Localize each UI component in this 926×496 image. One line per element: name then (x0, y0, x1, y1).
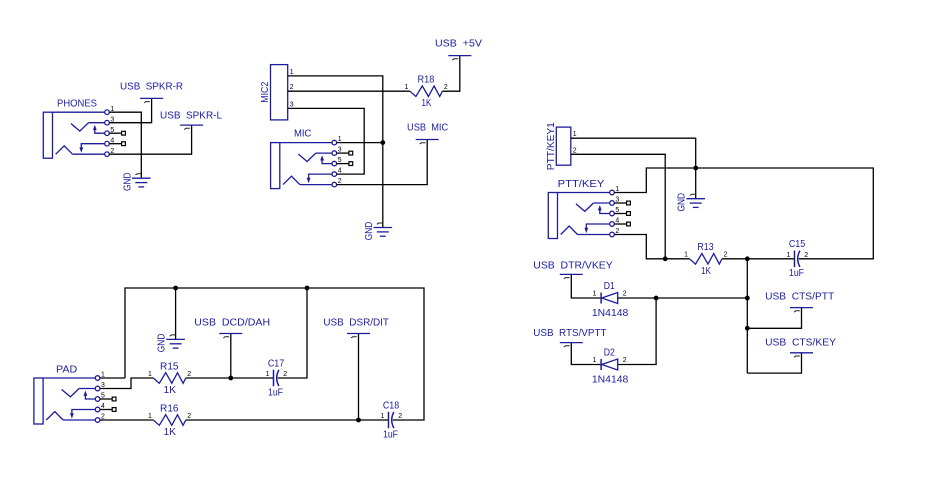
pin numbers C15 (787, 252, 809, 259)
svg-text:1: 1 (405, 84, 409, 91)
ground symbol PHONES (132, 174, 151, 187)
label R18 (417, 75, 434, 86)
wire MIC pin1 to node MICGND (337, 142, 383, 144)
wire node VKEY vertical (746, 259, 748, 373)
label D2 (604, 347, 615, 358)
svg-text:R18: R18 (417, 75, 434, 86)
wire PTT/KEY pin2 to R13 input (614, 235, 689, 259)
diode D2 (601, 359, 618, 370)
wire PAD ground stem (175, 288, 177, 339)
no-connect terminal PTT/KEY pin 5 (614, 212, 630, 216)
power port USB MIC symbol (416, 140, 439, 145)
net label USB +5V (435, 39, 482, 50)
value 1K of R18 (422, 98, 432, 109)
resistor R15 (153, 373, 186, 384)
pin numbers C18 (381, 413, 403, 420)
label PHONES (57, 99, 97, 110)
svg-text:C15: C15 (789, 239, 806, 250)
no-connect terminal PAD pin 5 (100, 397, 116, 401)
wire MIC2 pin3 to MIC pin4 (288, 108, 365, 174)
svg-text:GND: GND (677, 193, 688, 212)
label C17 (268, 358, 285, 369)
connector MIC2 body (271, 65, 288, 120)
label D1 (604, 281, 615, 292)
svg-text:1: 1 (684, 252, 688, 259)
resistor R16 (153, 415, 186, 426)
wire PAD pin2 to R16 (100, 419, 153, 421)
wire node DSR to C18 (359, 419, 389, 421)
label PTT/KEY1 (546, 122, 557, 170)
wire R15 to node DCD (186, 377, 231, 379)
pin numbers D1 (592, 291, 626, 298)
svg-text:2: 2 (283, 371, 287, 378)
capacitor C15 (795, 251, 800, 268)
resistor R13 (690, 254, 723, 265)
capacitor C17 (274, 370, 279, 387)
wire USB DCD/DAH to node DCD (230, 334, 232, 379)
label PTT/KEY (558, 179, 605, 190)
connector MIC2 pin numbers (290, 69, 294, 109)
jack PHONES body (43, 110, 109, 158)
wire R16 to node DSR (186, 419, 359, 421)
svg-text:USB +5V: USB +5V (435, 39, 482, 50)
label R15 (160, 361, 179, 372)
svg-text:C18: C18 (383, 400, 400, 411)
jack PAD pin numbers (101, 372, 105, 421)
svg-text:USB SPKR-R: USB SPKR-R (120, 82, 183, 93)
power port USB DCD/DAH symbol (219, 334, 242, 339)
label PAD (56, 365, 77, 376)
no-connect terminal PTT/KEY pin 3 (614, 201, 630, 205)
svg-text:R15: R15 (160, 361, 179, 372)
svg-text:USB RTS/VPTT: USB RTS/VPTT (533, 328, 607, 339)
value 1uF of C15 (789, 268, 804, 279)
pin numbers C17 (266, 371, 288, 378)
svg-text:1K: 1K (701, 266, 711, 277)
wire D1 to node DK (618, 297, 656, 299)
svg-text:PHONES: PHONES (57, 99, 97, 110)
label GND PAD (157, 334, 168, 353)
wire node MICGND to ground (382, 143, 384, 219)
label R13 (697, 242, 714, 253)
pin numbers R18 (405, 84, 448, 91)
net label USB CTS/KEY (765, 337, 836, 348)
wire PTTKEY ground stem (695, 168, 697, 199)
wire PHONES pin3 to USB SPKR-R (109, 98, 151, 122)
svg-text:1: 1 (787, 252, 791, 259)
svg-text:R13: R13 (697, 242, 714, 253)
value 1K of R16 (164, 427, 176, 438)
label GND PTTKEY (677, 193, 688, 212)
jack PTT/KEY body (548, 190, 614, 238)
svg-text:1K: 1K (422, 98, 432, 109)
wire MIC pin2 to USB MIC (337, 140, 428, 185)
net label USB DTR/VKEY (533, 260, 613, 271)
svg-text:2: 2 (290, 84, 294, 91)
wire USB RTS/VPTT to D2 (571, 343, 601, 365)
wire MIC2 pin1 to node MICGND (288, 76, 383, 143)
wire node DCD to C17 (231, 377, 274, 379)
junction node DSR (356, 418, 361, 423)
net label USB DCD/DAH (194, 318, 270, 329)
net label USB MIC (407, 123, 449, 134)
svg-text:2: 2 (573, 147, 577, 154)
svg-text:GND: GND (364, 222, 375, 241)
svg-text:2: 2 (623, 291, 627, 298)
junction node GNDRAIL (173, 286, 178, 291)
svg-text:1uF: 1uF (268, 387, 283, 398)
wire R13 to node VKEY (722, 258, 747, 260)
value 1uF of C17 (268, 387, 283, 398)
junction node DK (654, 296, 659, 301)
resistor R18 (410, 86, 443, 97)
no-connect terminal PAD pin 4 (100, 408, 116, 412)
svg-text:1: 1 (592, 357, 596, 364)
wire PTT/KEY pin1 to node PKG rail (614, 168, 873, 259)
svg-text:2: 2 (623, 357, 627, 364)
no-connect terminal PHONES pin 5 (109, 131, 125, 135)
svg-text:USB MIC: USB MIC (407, 123, 449, 134)
svg-text:1K: 1K (164, 427, 176, 438)
label R16 (160, 403, 179, 414)
junction node VKEY top (745, 256, 750, 261)
label GND MIC (364, 222, 375, 241)
jack MIC pin numbers (338, 136, 342, 185)
wire MIC2 pin2 to R18 (288, 90, 410, 92)
svg-text:USB DSR/DIT: USB DSR/DIT (323, 318, 389, 329)
net label USB RTS/VPTT (533, 328, 607, 339)
wire USB CTS/PTT to node VKEY (747, 308, 801, 329)
svg-text:MIC: MIC (294, 129, 312, 140)
label C18 (383, 400, 400, 411)
svg-text:D1: D1 (604, 281, 615, 292)
svg-text:2: 2 (804, 252, 808, 259)
svg-text:PAD: PAD (56, 365, 77, 376)
wire USB DTR/VKEY to D1 (571, 274, 601, 298)
value 1K of R15 (164, 385, 176, 396)
svg-text:USB SPKR-L: USB SPKR-L (160, 110, 222, 121)
no-connect terminal MIC pin 5 (337, 162, 353, 166)
wire USB CTS/KEY to node VKEY (747, 353, 801, 373)
power port USB +5V symbol (448, 56, 471, 61)
svg-text:1N4148: 1N4148 (592, 375, 629, 386)
svg-text:R16: R16 (160, 403, 179, 414)
wire PHONES pin1 to GND corner (109, 112, 141, 169)
no-connect terminal MIC pin 3 (337, 151, 353, 155)
value 1N4148 of D2 (592, 375, 629, 386)
svg-text:1: 1 (148, 413, 152, 420)
svg-text:GND: GND (157, 334, 168, 353)
connector PTT/KEY1 body (556, 127, 571, 165)
svg-text:D2: D2 (604, 347, 615, 358)
svg-text:2: 2 (444, 84, 448, 91)
svg-text:PTT/KEY1: PTT/KEY1 (546, 122, 557, 170)
wire node VKEY to C15 (747, 258, 794, 260)
wire MIC ground stem (382, 219, 384, 228)
value 1uF of C18 (383, 429, 398, 440)
no-connect terminal PHONES pin 4 (109, 142, 125, 146)
svg-text:1N4148: 1N4148 (592, 308, 629, 319)
svg-text:1: 1 (381, 413, 385, 420)
pin numbers R13 (684, 252, 727, 259)
junction node DCD (228, 376, 233, 381)
pin numbers R16 (148, 413, 191, 420)
net label USB CTS/PTT (765, 291, 835, 302)
ground symbol MIC (374, 223, 393, 236)
pin numbers R15 (148, 371, 191, 378)
jack MIC body (271, 140, 337, 188)
svg-text:2: 2 (187, 371, 191, 378)
svg-text:PTT/KEY: PTT/KEY (558, 179, 605, 190)
jack PHONES pin numbers (110, 106, 114, 155)
svg-text:GND: GND (122, 172, 133, 191)
value 1N4148 of D1 (592, 308, 629, 319)
label MIC (294, 129, 312, 140)
junction node VKEY low (745, 326, 750, 331)
net label USB SPKR-L (160, 110, 222, 121)
power port USB CTS/KEY symbol (790, 353, 813, 358)
svg-text:1: 1 (148, 371, 152, 378)
svg-text:USB CTS/KEY: USB CTS/KEY (765, 337, 836, 348)
svg-text:3: 3 (290, 101, 294, 108)
power port USB RTS/VPTT symbol (560, 343, 583, 348)
label MIC2 (260, 81, 271, 102)
wire PHONES pin2 to USB SPKR-L (109, 125, 191, 154)
svg-text:2: 2 (724, 252, 728, 259)
svg-text:2: 2 (398, 413, 402, 420)
ground symbol PAD (166, 335, 185, 348)
svg-text:USB DCD/DAH: USB DCD/DAH (194, 318, 270, 329)
svg-text:C17: C17 (268, 358, 285, 369)
wire R18 to USB +5V (442, 56, 459, 92)
connector PTT/KEY1 pin numbers (573, 131, 577, 154)
junction node PKG (693, 166, 698, 171)
value 1K of R13 (701, 266, 711, 277)
capacitor C18 (389, 412, 394, 429)
wire C17 to node C17RAIL (278, 288, 307, 378)
wire USB DSR/DIT to node DSR (358, 334, 360, 421)
wire PHONES ground stem (140, 170, 142, 179)
wire node DK to node VKEY (656, 297, 747, 299)
label C15 (789, 239, 806, 250)
power port USB DSR/DIT symbol (347, 334, 370, 339)
jack PAD body (34, 376, 100, 424)
junction node R13IN (663, 256, 668, 261)
svg-text:MIC2: MIC2 (260, 81, 271, 102)
wire PAD pin1 stub (100, 377, 125, 379)
svg-text:1K: 1K (164, 385, 176, 396)
svg-text:1: 1 (592, 291, 596, 298)
no-connect terminal PTT/KEY pin 4 (614, 222, 630, 226)
svg-text:1: 1 (266, 371, 270, 378)
power port USB SPKR-L symbol (180, 125, 203, 130)
diode D1 (601, 293, 618, 304)
svg-text:1uF: 1uF (383, 429, 398, 440)
net label USB SPKR-R (120, 82, 183, 93)
wire top rail PAD (125, 288, 424, 420)
junction node VKEY mid (745, 296, 750, 301)
svg-text:2: 2 (187, 413, 191, 420)
wire PTT/KEY1 pin1 to node PKG (571, 138, 696, 168)
pin numbers D2 (592, 357, 626, 364)
svg-text:1uF: 1uF (789, 268, 804, 279)
junction node C17RAIL (305, 286, 310, 291)
svg-text:1: 1 (290, 69, 294, 76)
ground symbol PTTKEY (686, 194, 705, 207)
junction node MICGND (380, 140, 385, 145)
power port USB CTS/PTT symbol (790, 308, 813, 313)
jack PTT/KEY pin numbers (615, 186, 619, 235)
label GND PHONES (122, 172, 133, 191)
power port USB DTR/VKEY symbol (560, 274, 583, 279)
svg-text:USB DTR/VKEY: USB DTR/VKEY (533, 260, 613, 271)
net label USB DSR/DIT (323, 318, 389, 329)
wire PTT/KEY1 pin2 to node R13IN (571, 154, 665, 258)
svg-text:1: 1 (573, 131, 577, 138)
power port USB SPKR-R symbol (140, 98, 163, 103)
wire node DK to D2 output (618, 298, 656, 365)
wire PAD pin3 to R15 (100, 378, 153, 389)
svg-text:USB CTS/PTT: USB CTS/PTT (765, 291, 835, 302)
